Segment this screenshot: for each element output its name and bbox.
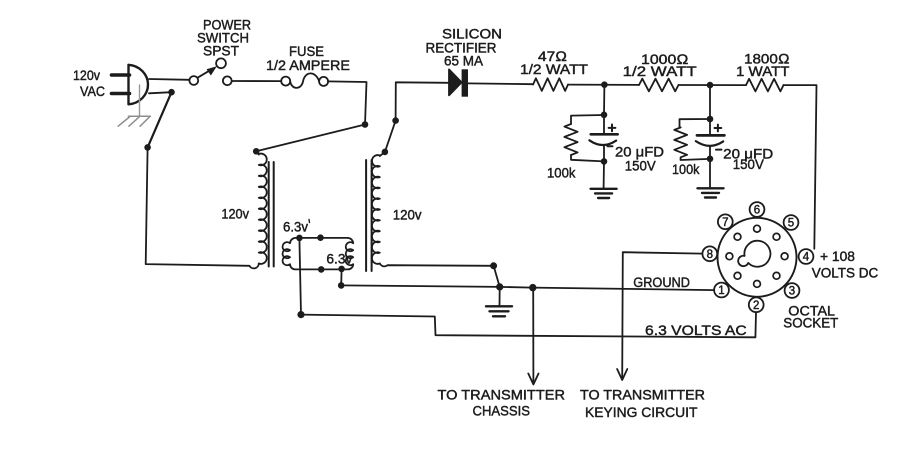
wire pin 8 to keying corner [622,252,702,379]
svg-text:1/2 WATT: 1/2 WATT [623,63,698,79]
wire stage1 rail drop [603,85,605,115]
svg-text:5: 5 [788,218,794,230]
wire plug lower to node [149,92,172,93]
wire to R5 top [680,119,711,127]
T1 secondary 6.3v winding and T2 secondary 6.3v winding loop [283,238,354,270]
fuse F1 1/2 ampere [281,73,328,87]
tick mark above 6.3v [308,220,311,223]
node plug lower [168,89,175,96]
svg-text:SOCKET: SOCKET [783,315,838,331]
node T2 bottom lead end [490,262,497,269]
ground stage1 [591,188,617,190]
svg-text:120v: 120v [221,206,249,222]
octal socket pin holes [726,225,788,287]
node 6.3v top wire A [296,235,303,242]
octal socket pin 7 [718,214,733,229]
svg-text:GROUND: GROUND [633,274,690,290]
wire to R4 top [571,115,604,124]
capacitor C1 20uFD 150V [589,115,617,161]
svg-text:CHASSIS: CHASSIS [473,403,531,419]
wire ground rail to pin 1 [341,285,714,290]
wire 6.3v winding to ground rail [340,269,342,286]
wire stage1 to ground [603,161,605,188]
octal socket pin 2 [749,297,764,312]
node left transformer primary top [253,148,260,155]
wire to chassis ground [499,287,501,305]
earth ground under plug [118,116,150,126]
svg-text:1/2 WATT: 1/2 WATT [520,61,588,77]
node left drop [144,144,151,151]
wire stage2 to ground [709,159,711,188]
cheater switch arm [494,266,500,287]
resistor R4 100k [564,124,577,155]
polarity + stage1 [609,125,616,132]
wire R1 to R2 [568,84,639,86]
svg-text:120v: 120v [393,207,422,223]
wire 6.3 volts AC run to pin 2 [301,313,756,338]
node right transformer primary top [382,149,389,156]
resistor R5 100k [674,127,687,157]
AC plug P1 (120v VAC) [129,65,149,105]
wire switch to fuse [232,80,282,82]
polarity - stage2 [716,149,722,151]
node stage2 lower [707,156,714,163]
chassis ground symbol [486,305,512,307]
transformer T1 primary 120v winding [259,154,267,264]
svg-text:6.3v: 6.3v [283,219,308,235]
svg-text:TO TRANSMITTER: TO TRANSMITTER [580,387,705,403]
node 6.3v bottom wire B [338,266,345,273]
T2 primary top lead [380,152,385,156]
node 6.3VAC corner [297,311,304,318]
wire 6.3v tap vertical [299,238,301,315]
svg-text:+ 108: + 108 [820,248,855,264]
polarity - stage1 [608,145,613,147]
octal socket pin 3 [785,283,800,298]
octal socket pin 5 [784,215,799,230]
node filter stage 2 top [707,82,714,89]
svg-text:150V: 150V [733,156,765,172]
octal socket body [718,218,797,297]
node on ground rail under arm [496,283,503,290]
cheater switch arm right transformer [385,121,396,152]
wire rectifier to R1 [468,82,533,85]
svg-text:150V: 150V [625,158,657,174]
svg-text:6: 6 [754,205,760,217]
node junction fuse/primary [362,121,369,128]
T2 primary bottom lead [380,264,494,267]
resistor R1 47 ohm 1/2 watt [533,78,568,91]
svg-text:1: 1 [718,285,724,297]
node top of cheater arm [392,117,399,124]
ground stage2 [698,187,724,189]
wire R5 bottom to node [681,157,707,160]
wire left drop to left transformer primary bottom [146,147,250,265]
T1 primary top lead [256,151,259,154]
svg-text:TO TRANSMITTER: TO TRANSMITTER [438,387,566,403]
wire vertical/top rail to rectifier [396,82,449,120]
wire R3 to octal pin 4 [784,85,817,249]
svg-text:8: 8 [707,249,713,261]
svg-text:6.3 VOLTS AC: 6.3 VOLTS AC [645,322,747,338]
svg-text:100k: 100k [672,161,700,177]
octal socket center key [738,241,770,267]
node ground rail left [338,282,345,289]
plug earth lead (grey) [139,85,141,116]
arrow to transmitter keying circuit [617,369,627,380]
wire stage2 rail drop [709,85,711,119]
svg-text:4: 4 [803,252,810,264]
transformer T2 primary 120v winding [372,155,380,264]
node stage1 lower [601,158,608,165]
node stage2 upper [707,116,714,123]
resistor R2 1000 ohm 1/2 watt [639,79,679,92]
svg-text:SPST: SPST [203,43,239,59]
wire diagonal down-left [148,92,172,147]
svg-text:KEYING CIRCUIT: KEYING CIRCUIT [585,404,698,420]
wire/arrow to transmitter chassis [528,288,538,385]
silicon rectifier D1 65MA [449,69,468,96]
octal socket pin 6 [750,202,765,217]
svg-text:1 WATT: 1 WATT [736,63,790,79]
node 6.3v top wire B [317,234,324,241]
svg-text:7: 7 [722,217,728,229]
resistor R3 1800 ohm 1 watt [746,79,784,92]
octal socket pin 4 [799,249,814,264]
svg-text:6.3v: 6.3v [326,250,352,266]
transformer T2 core [365,160,367,271]
node filter stage 1 top [601,81,608,88]
svg-text:1/2 AMPERE: 1/2 AMPERE [266,57,350,73]
T1 primary bottom lead [250,264,259,269]
wire R2 to R3 [679,84,747,86]
node chassis tap [529,284,536,291]
node 6.3v bottom wire A [318,266,325,273]
svg-text:3: 3 [789,286,795,298]
capacitor C2 20uFD 150V [696,119,725,159]
svg-text:VOLTS DC: VOLTS DC [812,265,879,281]
svg-text:65 MA: 65 MA [444,53,484,69]
node stage1 upper [601,112,608,119]
svg-text:120v: 120v [73,67,100,83]
svg-text:VAC: VAC [80,83,105,99]
T1 core [268,162,270,267]
wire plug to power switch [149,78,189,81]
octal socket pin 1 [714,283,729,298]
polarity + stage2 [715,125,722,132]
wire R4 bottom to node [571,155,604,161]
svg-text:2: 2 [753,300,759,312]
svg-text:100k: 100k [547,165,576,181]
power switch S1 SPST [189,58,231,85]
wire fuse to corner down to junction [328,81,366,124]
wire diagonal to left transformer primary [256,125,365,152]
octal socket pin 8 [702,246,717,261]
